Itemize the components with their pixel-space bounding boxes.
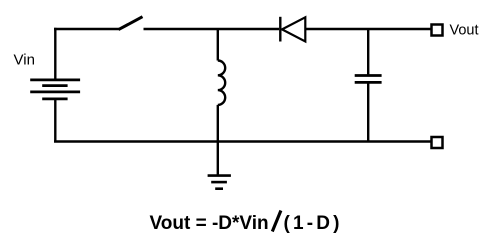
terminal bottom square [432,137,443,148]
wire inductor top lead [217,29,219,61]
wire left vertical (Vin top) [54,28,56,80]
capacitor C1 plate bottom [355,81,382,84]
battery V1 plate long top [30,79,80,82]
ground bar middle [211,181,227,184]
switch S1 blade [119,17,143,30]
battery V1 plate short [42,84,67,87]
capacitor C1 plate top [355,74,382,77]
ground bar narrow [215,187,223,190]
battery V1 plate short bottom [42,98,67,101]
wire ground lead [217,142,219,176]
formula slash in Vout = -D*Vin/(1-D) [272,211,281,232]
wire inductor bottom lead [217,105,219,142]
wire bottom horizontal [54,140,431,142]
diode D1 cathode bar [279,17,281,42]
svg-text:Vout: Vout [450,23,479,39]
svg-text:Vin: Vin [14,52,35,69]
terminal Vout square [432,25,443,36]
wire diode to Vout terminal [305,28,430,30]
ground bar wide [208,174,231,177]
wire capacitor top lead [367,29,369,76]
wire left vertical (Vin bottom) [54,99,56,143]
wire switch to diode [144,28,280,30]
inductor L1 coil [218,61,225,105]
svg-text:Vout = -D*Vin(1-D): Vout = -D*Vin(1-D) [150,213,340,234]
wire capacitor bottom lead [367,82,369,141]
battery V1 plate long [30,91,80,94]
wire top-left horizontal (Vin+ to switch) [54,28,119,30]
diode D1 triangle [282,17,305,41]
